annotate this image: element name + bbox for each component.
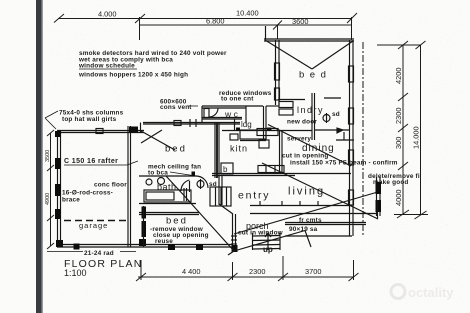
wall garage top (57, 130, 144, 132)
door tag b (221, 163, 233, 174)
svg-text:3500: 3500 (45, 150, 51, 162)
svg-text:1:100: 1:100 (64, 268, 87, 278)
svg-text:lndry: lndry (297, 105, 324, 115)
porch slant bottom (234, 231, 305, 252)
svg-text:reuse: reuse (155, 238, 173, 245)
svg-text:C 150 16 rafter: C 150 16 rafter (64, 158, 118, 165)
roof diagonal V right (312, 41, 353, 69)
laundry tub 2 (279, 109, 293, 115)
svg-text:6.800: 6.800 (206, 17, 225, 26)
kitchen sink rect (259, 140, 269, 148)
wall bath bottom (139, 203, 196, 205)
svg-text:4.000: 4.000 (98, 10, 117, 19)
column rect (275, 63, 280, 80)
up arrow shaft (267, 234, 269, 250)
tick (47, 130, 54, 136)
wall ldg right (263, 106, 265, 140)
svg-text:living: living (288, 186, 325, 198)
tick (398, 41, 408, 49)
svg-text:cons vent: cons vent (160, 104, 192, 111)
tick (398, 93, 408, 101)
diag living long (262, 163, 378, 219)
door leaf (189, 181, 191, 192)
kitchen walls and bench (258, 130, 354, 174)
wall porch left (232, 214, 234, 251)
svg-text:b: b (223, 165, 228, 174)
bath right wall stub (183, 188, 185, 201)
wall living south with window ticks (250, 205, 352, 207)
svg-text:servery: servery (287, 136, 311, 143)
wall right of bed wing (349, 40, 351, 236)
bottom bar (394, 214, 428, 216)
wall wc top (202, 105, 263, 107)
svg-text:cut in window: cut in window (238, 230, 283, 237)
bath fixtures (146, 179, 152, 185)
entry door arc (181, 180, 190, 191)
smoke detector hall (197, 181, 204, 188)
garage dashed line (64, 220, 128, 222)
tick (397, 210, 409, 218)
outrigger tick (265, 26, 267, 40)
tick (415, 211, 427, 219)
tick drop line (277, 25, 279, 39)
svg-text:4000: 4000 (394, 190, 403, 206)
wall entry left (218, 175, 220, 205)
up arrowhead (265, 233, 271, 237)
svg-text:4200: 4200 (394, 68, 403, 84)
dim line top 2 (140, 24, 352, 26)
tick (47, 165, 54, 171)
window mark garage top (96, 129, 103, 134)
svg-text:garage: garage (79, 221, 108, 230)
left vertical dim line (47, 130, 54, 249)
tick (47, 243, 54, 249)
leader (45, 111, 58, 118)
wall bed2/kitchen (139, 123, 233, 204)
wall column strip (376, 177, 378, 216)
tick drop line (139, 17, 141, 40)
svg-text:bed: bed (166, 216, 188, 227)
tick (347, 13, 357, 23)
wall bed3 left black (142, 207, 147, 219)
svg-text:window schedule: window schedule (78, 63, 135, 70)
porch slant top long (234, 193, 376, 235)
column black left wall (55, 131, 61, 137)
ticks (136, 273, 146, 281)
junction black blob (129, 127, 138, 133)
column rect (349, 108, 354, 124)
column black bottom wall (139, 239, 146, 246)
entry-porch connector diagonal (219, 204, 233, 214)
svg-text:ldg: ldg (241, 120, 252, 129)
wall wc bottom (202, 117, 242, 119)
tick drop line (351, 17, 353, 40)
vert dim line 1 (402, 45, 404, 215)
living right wall lower (376, 177, 382, 216)
svg-text:to one cnt: to one cnt (221, 96, 254, 103)
door arrow black (337, 128, 343, 133)
drop lines (140, 260, 142, 280)
wall garage bottom (57, 244, 232, 246)
svg-text:21-24 rad: 21-24 rad (84, 250, 114, 257)
svg-text:10.400: 10.400 (236, 9, 259, 18)
window marks bed2 top (174, 121, 181, 126)
svg-text:3600: 3600 (292, 17, 308, 26)
deck lines (250, 213, 378, 215)
top tick bar (377, 44, 421, 46)
wall stub below wc (234, 119, 236, 131)
svg-text:4900: 4900 (45, 193, 51, 205)
svg-text:14.000: 14.000 (412, 126, 421, 149)
step rungs (253, 235, 281, 238)
svg-text:bed: bed (299, 70, 331, 81)
svg-text:2300: 2300 (249, 267, 265, 276)
svg-text:16-Ø-rod-cross-: 16-Ø-rod-cross- (62, 190, 113, 197)
column rect (349, 190, 354, 205)
svg-text:top hat wall girts: top hat wall girts (62, 116, 117, 123)
section dash-dot line (362, 42, 364, 235)
svg-text:install 150 ×75 FS beam - conf: install 150 ×75 FS beam - confirm (290, 160, 398, 167)
hinge black mark (267, 128, 272, 132)
porch wall hatch rungs (231, 235, 237, 237)
steps right slant (305, 231, 311, 248)
wall kitchen/dining (279, 130, 281, 174)
column rect (275, 88, 280, 100)
vert dim line 2 (420, 45, 422, 216)
wall dining top (222, 130, 312, 132)
tick (135, 14, 145, 23)
wall garage right (127, 126, 129, 247)
svg-text:sd: sd (332, 111, 340, 118)
long diagonal left (188, 200, 234, 251)
svg-text:brace: brace (62, 197, 80, 204)
svg-text:entry: entry (238, 190, 270, 202)
tick (398, 162, 408, 170)
wall bed2 top (143, 122, 240, 124)
wall bed3 top (139, 212, 199, 214)
column rect (349, 150, 354, 165)
svg-text:cut in opening: cut in opening (282, 153, 328, 160)
wall lndry top (278, 99, 305, 101)
wall hall/beam (212, 173, 351, 175)
wall top of bed wing (264, 38, 354, 40)
svg-text:fr cmts: fr cmts (299, 217, 322, 224)
dining fixture (343, 132, 345, 140)
wall bath top (139, 175, 196, 177)
cross brace diagonal (141, 131, 175, 150)
svg-text:octality: octality (408, 285, 454, 300)
door leaf wc (204, 109, 209, 118)
kitchen bench (258, 166, 284, 173)
svg-text:bed: bed (165, 144, 187, 155)
deck right edge (377, 200, 379, 219)
wall wc right (245, 106, 247, 123)
svg-text:windows hoppers 1200 x 450 hig: windows hoppers 1200 x 450 high (78, 72, 188, 79)
svg-text:2300: 2300 (394, 108, 403, 124)
steps ladder rails (252, 233, 254, 250)
svg-text:300: 300 (394, 137, 403, 149)
column rect (349, 66, 354, 82)
watermark logo (391, 285, 405, 299)
wall lndry divider (311, 93, 313, 140)
svg-text:kitn: kitn (230, 144, 248, 154)
svg-text:to bca: to bca (148, 170, 168, 177)
tick (398, 124, 408, 132)
tick (47, 215, 54, 221)
svg-text:wc: wc (224, 109, 240, 119)
beam end black cap (192, 172, 196, 177)
svg-text:90×19 sa: 90×19 sa (289, 226, 318, 233)
svg-text:3700: 3700 (305, 267, 321, 276)
svg-text:4 400: 4 400 (182, 267, 201, 276)
svg-text:conc floor: conc floor (94, 182, 127, 189)
dim line top 1 (58, 18, 352, 20)
cabinet rects under ldg (230, 129, 278, 141)
roof diagonal V left (265, 40, 312, 69)
smoke detector lndry (323, 115, 330, 122)
laundry tub (279, 102, 293, 108)
svg-text:up: up (263, 245, 273, 254)
wall garage left (57, 131, 59, 246)
svg-text:new door: new door (287, 119, 317, 126)
porch corner diagonal (228, 251, 234, 255)
ldg-to-dining long diagonal (268, 125, 351, 167)
tick (54, 14, 64, 23)
tick (416, 41, 426, 49)
wall wc left (201, 106, 203, 123)
tick (273, 21, 282, 30)
scan edge dark bar (36, 0, 42, 313)
wall junction vertical (140, 123, 142, 133)
stair treads (210, 187, 231, 206)
wall left of bed wing (275, 40, 277, 105)
hinge black mark (236, 128, 240, 132)
